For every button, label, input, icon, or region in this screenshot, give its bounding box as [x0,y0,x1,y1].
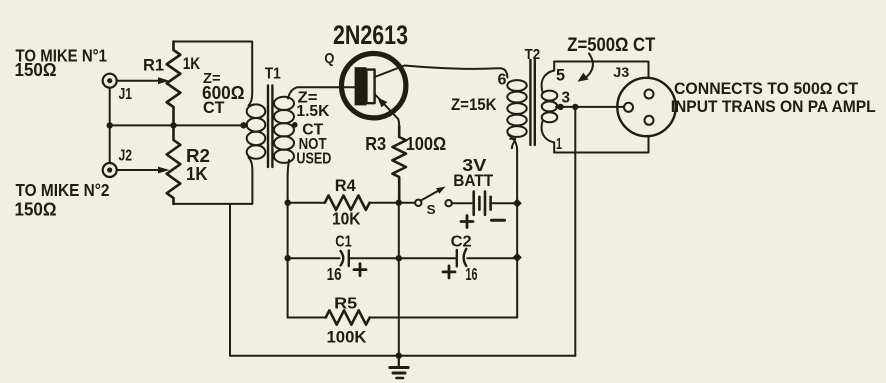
jack J2 [103,163,117,177]
wire R4 to switch [370,202,416,204]
svg-text:J2: J2 [119,148,133,165]
wire J2 wiper to R2 [117,169,160,171]
wire CT down to rail [574,107,576,356]
wire drop to ground rail [229,204,231,356]
svg-text:R5: R5 [334,296,357,313]
svg-text:7: 7 [509,136,517,153]
svg-text:R4: R4 [335,177,357,195]
resistor R5 [326,310,370,324]
svg-text:J1: J1 [119,86,133,103]
svg-text:100Ω: 100Ω [406,134,447,154]
svg-text:INPUT TRANS ON PA AMPL: INPUT TRANS ON PA AMPL [671,97,876,116]
svg-text:3: 3 [562,90,571,107]
svg-text:S: S [427,202,436,217]
wire left vertical J1-J2 [109,88,111,163]
wire center row to T1 CT [110,124,247,126]
wire R5 row left [288,317,326,319]
node CT ground takeoff [572,104,578,110]
resistor R3 [392,126,406,203]
node R3 bottom [396,200,402,206]
svg-text:CONNECTS TO 500Ω CT: CONNECTS TO 500Ω CT [674,79,859,98]
node C1 row [285,255,291,261]
svg-text:T1: T1 [265,66,281,83]
svg-text:J3: J3 [613,65,630,80]
wire R2 bottom to T1 primary bottom [174,158,253,204]
svg-text:16: 16 [466,264,478,284]
svg-text:R3: R3 [365,134,386,154]
capacitor C1 [341,251,344,265]
svg-text:100K: 100K [327,327,368,346]
wire J3 box bottom [554,136,648,152]
node T2 CT [557,104,563,110]
node battery junction [513,199,522,208]
svg-text:USED: USED [296,151,331,168]
wire center bus R3 bottom to rail [398,203,400,356]
svg-text:Q: Q [324,50,334,67]
wire R5 row right [370,317,518,319]
capacitor C1 row wires [288,257,340,259]
wire right bus T2 pin7 down to R5 row [509,135,518,318]
svg-text:BATT: BATT [453,171,494,190]
svg-text:R1: R1 [143,56,164,75]
resistor R4 [325,196,370,210]
svg-text:Z=15K: Z=15K [451,95,497,114]
svg-text:150Ω: 150Ω [15,200,57,220]
wire collector to T2 primary top [375,66,508,78]
transformer T2 secondary winding [542,91,558,101]
transformer T1 primary winding [247,104,266,118]
node rail ground [396,353,402,359]
node T1 secondary CT (not used) [292,122,298,128]
transformer T2 core [529,60,531,145]
node T1 primary CT [240,122,246,128]
transformer T1 core [267,86,269,168]
wire J1 wiper to R1 [117,80,160,82]
transformer T2 primary winding [507,80,526,91]
resistor R1 [167,42,181,126]
svg-text:10K: 10K [332,209,361,229]
wire T1 secondary top to base [288,87,355,98]
node R4 row left [285,200,291,206]
ground [398,356,400,367]
switch S [415,200,421,206]
wire T2 pin5 lead [542,62,555,93]
wire R4 row left [288,202,325,204]
svg-text:150Ω: 150Ω [15,60,57,80]
svg-text:Z=500Ω CT: Z=500Ω CT [567,35,655,56]
svg-text:16: 16 [327,264,342,284]
svg-text:C2: C2 [451,234,472,251]
svg-text:TO MIKE N°2: TO MIKE N°2 [16,180,110,200]
svg-text:CT: CT [203,98,225,117]
svg-text:5: 5 [556,66,565,85]
wire J3 box top [554,62,648,78]
svg-text:C1: C1 [335,234,352,251]
wire ground rail [230,355,575,357]
wire R1 top to T1 primary top [174,42,253,106]
svg-text:T2: T2 [525,46,541,63]
wire T1 secondary bottom down the left bus [288,160,289,318]
transistor Q 2N2613 [342,53,406,117]
resistor R2 [167,125,181,203]
capacitor C2 [456,250,458,266]
svg-text:1: 1 [556,136,562,153]
svg-text:1.5K: 1.5K [296,103,329,120]
arrow Z=500 callout [587,54,593,78]
node C2 right junction [513,253,522,262]
connector J3 [617,78,675,136]
wire T2 pin3 CT to J3 [556,106,624,108]
jack J1 [103,74,117,88]
svg-text:1K: 1K [183,54,201,73]
transformer T1 secondary winding [274,97,294,110]
wire T2 pin1 lead [542,121,555,153]
battery 3V [452,202,472,204]
wire emitter [375,94,400,126]
svg-text:6: 6 [498,72,507,89]
node junction J bus [107,122,113,128]
svg-text:1K: 1K [186,164,208,184]
svg-text:2N2613: 2N2613 [333,20,408,50]
